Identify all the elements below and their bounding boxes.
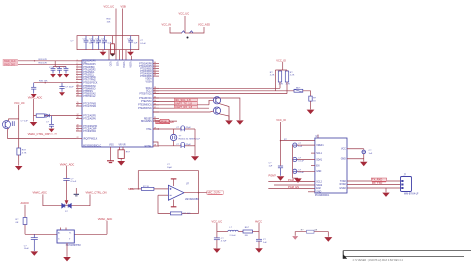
resistor R40 (278, 70, 281, 88)
svg-text:GND: GND (341, 159, 346, 161)
IC2 body (315, 138, 347, 193)
wire XTAL row2 right (185, 145, 196, 147)
svg-text:VCC: VCC (341, 149, 346, 151)
svg-text:22: 22 (77, 137, 79, 139)
svg-text:10uF: 10uF (24, 248, 30, 250)
svg-text:R34 47K: R34 47K (39, 63, 48, 65)
svg-text:1uF: 1uF (102, 43, 106, 45)
ground under rail (277, 176, 285, 181)
capacitor C45 (181, 142, 185, 148)
wire label row1 (153, 98, 240, 120)
capacitor C43 bars (12, 121, 14, 126)
wire tie center drop (185, 32, 189, 34)
wire VCC_IO rail (280, 122, 282, 166)
wire filter right rail lower (258, 241, 260, 248)
svg-text:VMAC_CTRL_ON: VMAC_CTRL_ON (28, 132, 49, 136)
net label underline (208, 194, 223, 196)
junction dot (187, 37, 189, 39)
svg-text:GND2: GND2 (339, 188, 346, 190)
net label underline (156, 123, 170, 125)
svg-text:22pF: 22pF (186, 127, 192, 129)
svg-text:VMAC_ADC: VMAC_ADC (98, 217, 113, 221)
op-amp U1 main MCU body (82, 60, 153, 147)
svg-text:PGM_TXD: PGM_TXD (288, 178, 301, 182)
resistor R32 jumper (190, 31, 194, 33)
svg-text:8: 8 (77, 78, 78, 80)
wire U4 gnd (66, 243, 68, 257)
wire feedback bottom (158, 193, 199, 214)
capacitor C55 (31, 234, 38, 251)
svg-text:VDDA: VDDA (122, 62, 125, 69)
wire filter left rail (216, 223, 218, 238)
U1 left pin stubs and names (76, 59, 98, 140)
svg-text:14: 14 (77, 95, 79, 97)
svg-text:1uF: 1uF (263, 242, 267, 244)
svg-text:0R: 0R (16, 222, 19, 224)
svg-text:C? 10uF: C? 10uF (65, 87, 74, 89)
transistor Q1 (3, 121, 11, 129)
wire caps common vertical (293, 145, 298, 178)
inductor L1 (228, 230, 238, 231)
svg-text:1uF: 1uF (369, 153, 373, 155)
op-amp power stub top (171, 179, 177, 186)
svg-text:0.1uF: 0.1uF (71, 181, 77, 183)
wire gnd tie (295, 232, 328, 237)
ground bar mid arm (74, 188, 79, 196)
wire VCC_UC left rail lower (18, 155, 20, 166)
wire PTE0 long (153, 93, 287, 95)
junction output (198, 192, 199, 193)
svg-text:VMAC_CTRL_ON: VMAC_CTRL_ON (86, 191, 107, 195)
svg-text:Y1: Y1 (69, 233, 71, 235)
svg-text:VSSA: VSSA (129, 62, 132, 69)
U1 bottom pin stubs (109, 145, 126, 154)
svg-text:PTE0/TXD1: PTE0/TXD1 (139, 93, 152, 95)
svg-text:PTC6/RXD2: PTC6/RXD2 (83, 131, 96, 133)
svg-text:10pF: 10pF (167, 167, 173, 169)
svg-text:EN2: EN2 (316, 188, 321, 190)
buffer U4 inner pins (58, 232, 71, 241)
wire ADC row (34, 115, 83, 117)
svg-text:VCC_UC: VCC_UC (14, 101, 25, 105)
svg-text:4.7K: 4.7K (279, 84, 284, 86)
svg-text:VCC_IO: VCC_IO (276, 58, 286, 62)
net label BT_RXD boxed (371, 178, 387, 181)
svg-text:PTE3/MISO1: PTE3/MISO1 (138, 105, 152, 107)
ground caps common (294, 178, 301, 183)
transistor Q2 (213, 97, 220, 104)
svg-text:PTB0/ADP0: PTB0/ADP0 (83, 60, 96, 63)
wire PGM_TXD (268, 181, 315, 183)
wire Q1 collector (9, 119, 19, 121)
title block top line (343, 250, 471, 252)
svg-text:PTB1/ADP1: PTB1/ADP1 (83, 63, 96, 66)
ground tie left (292, 236, 298, 240)
svg-text:21: 21 (77, 130, 79, 132)
wire VMAC_ADC right drop (106, 221, 108, 235)
svg-text:0.1uF: 0.1uF (298, 172, 304, 174)
svg-text:PTB2/SPSCK: PTB2/SPSCK (83, 83, 98, 85)
wire VSS down (110, 153, 112, 161)
wire crystal link (173, 129, 175, 134)
svg-text:MIC_OUT+: MIC_OUT+ (208, 191, 222, 195)
wire SCL long (153, 90, 294, 92)
ground under right bank (127, 50, 134, 56)
ground under Q3 (236, 120, 244, 124)
connector J1 (401, 177, 412, 192)
ground under C41 (59, 92, 65, 96)
svg-text:C? 1uF: C? 1uF (21, 121, 29, 123)
IC2 left pin names (316, 145, 324, 173)
capacitor C29 (102, 36, 107, 50)
wire VCC_UC left rail upper (18, 105, 20, 148)
svg-text:RX_TXD: RX_TXD (372, 181, 382, 185)
junction feedback top (138, 188, 139, 189)
wire bead to right rail (253, 231, 260, 233)
ground crystal (191, 156, 199, 161)
svg-text:VCC_UC: VCC_UC (179, 12, 190, 16)
resistor R36 on ADC row (36, 114, 44, 117)
svg-text:EXTAL: EXTAL (145, 145, 153, 148)
wire VSB vertical (122, 9, 124, 61)
svg-text:VCC_UC: VCC_UC (104, 5, 115, 9)
IC2 bottom-left pin names (316, 181, 323, 193)
capacitor C28 (96, 36, 101, 50)
wire op-amp input (130, 188, 168, 190)
svg-text:18: 18 (77, 117, 79, 119)
wire right arm (67, 194, 91, 205)
capacitor C46 on rail (278, 166, 283, 176)
svg-text:XTAL: XTAL (146, 128, 152, 131)
capacitor C37 (51, 67, 56, 74)
IC2 bottom pin stub (308, 191, 315, 193)
svg-text:10K: 10K (107, 21, 111, 23)
wire op-amp output (184, 192, 207, 194)
wire XTAL row1 right (185, 128, 196, 130)
svg-text:R? 10K: R? 10K (183, 213, 191, 215)
svg-text:AVCC: AVCC (255, 219, 262, 223)
net label OSC_CLK boxed (156, 120, 170, 123)
capacitor C27 (90, 36, 95, 50)
resistor R41 (285, 70, 288, 94)
resistor RV1 red box (118, 150, 124, 161)
capacitor C52 (214, 238, 220, 240)
net label I2C_SCL_1.8 (174, 98, 197, 102)
wire cap to diode junction (66, 180, 68, 200)
svg-text:AUDIO: AUDIO (21, 201, 29, 205)
svg-text:2.2uH: 2.2uH (230, 235, 236, 237)
svg-text:4.7K: 4.7K (22, 153, 27, 155)
capacitor C38 (57, 67, 62, 74)
svg-text:PTE4/MOSI1: PTE4/MOSI1 (138, 108, 152, 110)
net label underline (372, 181, 386, 183)
resistor R47 (307, 230, 315, 233)
wire filter horizontal (217, 231, 228, 233)
wire cap bank box (77, 36, 139, 50)
wire SDA long (153, 87, 280, 89)
ground under Q2 (225, 120, 233, 124)
title block left edge (342, 251, 344, 259)
svg-text:0.1uF: 0.1uF (140, 43, 146, 45)
svg-text:28: 28 (154, 145, 156, 147)
net label MIC_OUT+ boxed (207, 191, 224, 194)
svg-text:SCL1: SCL1 (316, 153, 322, 155)
wire XTAL row1 (153, 128, 181, 130)
wire PGM_RXD (274, 184, 315, 186)
net label BKGD small (160, 119, 169, 123)
svg-text:VSS: VSS (109, 145, 114, 147)
wire VMAC_ADC center drop (66, 166, 68, 178)
svg-text:MC9S08QE8CLC: MC9S08QE8CLC (83, 145, 101, 147)
capacitor C54 (63, 179, 69, 181)
svg-text:BKGD/MS: BKGD/MS (141, 121, 152, 123)
wire KBI row (34, 82, 82, 84)
svg-text:PTC3/ADP6: PTC3/ADP6 (83, 117, 96, 120)
svg-text:1uF: 1uF (269, 165, 273, 167)
wire R42 to gnd (310, 101, 312, 109)
ground under C39 (64, 74, 70, 78)
junction on KBI row (45, 82, 46, 83)
svg-text:0.1uF: 0.1uF (298, 160, 304, 162)
wire cap feed (53, 61, 66, 67)
svg-text:RXD2: RXD2 (340, 184, 347, 186)
ground under C40 (31, 94, 37, 98)
svg-text:PCA9306DC1: PCA9306DC1 (315, 194, 330, 197)
transistor Q3 (213, 107, 220, 114)
ground filter right (255, 248, 263, 252)
svg-text:GND: GND (316, 191, 321, 193)
capacitor C26 (84, 36, 89, 50)
ground under U4 (63, 257, 71, 261)
svg-text:UART_TX_1.8: UART_TX_1.8 (175, 102, 192, 106)
wire VCC_A3D arm (189, 27, 204, 33)
capacitor C53 (256, 239, 262, 241)
svg-text:SDA1: SDA1 (316, 158, 323, 161)
svg-text:VCC_IN: VCC_IN (162, 23, 172, 27)
svg-text:PTC2/ADP5: PTC2/ADP5 (83, 114, 96, 117)
diode D2 on ADC row (46, 114, 50, 117)
capacitor C34 (128, 36, 133, 50)
wire crystal link2 (173, 141, 175, 146)
svg-text:VMAC_ADC: VMAC_ADC (28, 95, 43, 99)
wire op-amp minus input (158, 194, 168, 196)
wire VCC_UC tie vertical (184, 16, 186, 33)
ground under C42 (49, 129, 55, 133)
title block corner mark (343, 254, 347, 259)
svg-text:VSSA: VSSA (146, 81, 153, 84)
ground under C38 (57, 74, 63, 78)
wire label row3 (153, 104, 209, 106)
svg-text:4.7V ZENER : (1N4678 x2) MAX: 4.7V ZENER : (1N4678 x2) MAX 0.5W REV 0.… (353, 259, 404, 262)
wire BKGD stub row (153, 120, 177, 122)
wire Q2 emitter to gnd (219, 103, 229, 120)
svg-text:VSS: VSS (116, 62, 118, 67)
wire filter left rail lower (216, 240, 218, 249)
svg-text:VR VR: VR VR (119, 145, 126, 147)
inductor FB1 red box (111, 36, 115, 54)
diode D3 pair (62, 204, 71, 208)
svg-text:R4002 32.768KHZ-LF: R4002 32.768KHZ-LF (179, 139, 201, 141)
wire BT_RXD (347, 180, 401, 182)
title block second line (343, 255, 464, 257)
ground under left rail (15, 166, 23, 170)
svg-text:VDD: VDD (109, 62, 111, 67)
ground under C55 (31, 251, 39, 255)
svg-text:SWD_DIO: SWD_DIO (4, 63, 15, 66)
svg-text:WM-BT-04-LF: WM-BT-04-LF (404, 193, 419, 195)
wire VCC_IO stub (275, 62, 287, 70)
wire feedback top (138, 171, 198, 193)
wire VMAC_ADC drop (33, 99, 35, 122)
svg-text:PTE1/RXD1: PTE1/RXD1 (139, 98, 152, 100)
net label UART_TX_1.8 (174, 102, 197, 106)
ground under left bank (100, 50, 107, 56)
U1 power pin stubs (109, 50, 132, 60)
svg-text:VREF1: VREF1 (316, 145, 324, 147)
svg-text:39: 39 (154, 75, 156, 77)
wire BT_TXD (347, 184, 401, 186)
svg-text:PTC1/TPM4: PTC1/TPM4 (83, 106, 96, 108)
capacitor C50 (362, 149, 366, 162)
capacitor C44 (181, 126, 185, 131)
svg-text:R? 1K: R? 1K (143, 186, 150, 188)
svg-text:PTB7/SCL2: PTB7/SCL2 (83, 96, 96, 98)
wire AUDIO drop upper (24, 205, 26, 218)
svg-text:2.2K: 2.2K (290, 75, 295, 77)
IC2 left pin stubs (311, 153, 315, 166)
svg-text:IRQ/TPMCLK: IRQ/TPMCLK (83, 138, 98, 140)
ground tie right (324, 237, 332, 242)
svg-text:TXD2: TXD2 (340, 181, 347, 183)
ground bar under VSS (107, 161, 114, 163)
svg-text:1uF: 1uF (134, 43, 138, 45)
ferrite bead BD2 (243, 230, 253, 233)
svg-text:VCC_UC: VCC_UC (212, 219, 223, 223)
svg-text:VMAC_ADC: VMAC_ADC (60, 162, 75, 166)
svg-text:16: 16 (77, 105, 79, 107)
wire Q2 base (209, 100, 213, 105)
wire gnd drop from BT_GND (385, 188, 387, 192)
wire AUDIO drop lower (24, 225, 26, 235)
wire audio row (25, 233, 57, 235)
buffer U4 body (57, 228, 74, 244)
capacitor C42 (49, 116, 54, 129)
arrow into junction (65, 200, 69, 204)
junction on SWD_CLK (34, 60, 35, 61)
wire pullup left vertical (274, 70, 276, 91)
U1 right pin stubs and names (138, 62, 159, 148)
capacitor C48 (293, 157, 315, 161)
svg-text:MCU_ON: MCU_ON (48, 134, 58, 136)
svg-text:1uF: 1uF (298, 146, 302, 148)
wire VCC_IN arm (170, 27, 182, 33)
svg-text:2.2K: 2.2K (270, 75, 275, 77)
wire label row2 (153, 100, 197, 102)
svg-text:4.7uF: 4.7uF (221, 241, 227, 243)
resistor R46 (23, 218, 27, 225)
wire PGM_EN (268, 187, 315, 189)
svg-text:VCC_IO: VCC_IO (276, 118, 286, 122)
svg-text:NC7WZ07P6X: NC7WZ07P6X (66, 245, 82, 247)
FB1 bottom junction marks (110, 54, 116, 57)
wire Q1 emitter to row (8, 128, 76, 138)
net label UART_RX_1.8 (174, 105, 197, 109)
net label SWD backing box (3, 59, 18, 65)
ground under VMAC_ADC drop (30, 122, 38, 126)
capacitor C40 at wire end (31, 83, 36, 94)
svg-text:VDDA: VDDA (145, 78, 152, 81)
svg-text:PTE2/SS1: PTE2/SS1 (141, 101, 152, 103)
IC2 right pin names (341, 149, 346, 161)
svg-text:R35 10K: R35 10K (39, 80, 48, 82)
svg-text:GND: GND (316, 171, 321, 173)
ground under BT_GND (382, 193, 389, 197)
svg-text:LMV321IDBV: LMV321IDBV (185, 199, 199, 201)
ferrite bead BD1 (294, 89, 303, 92)
IC2 bottom-right pin names (339, 181, 346, 190)
svg-text:EN: EN (316, 165, 320, 167)
svg-text:PGM_EN: PGM_EN (288, 185, 299, 189)
wire inductor to bead (238, 231, 243, 233)
svg-text:VSB: VSB (121, 5, 126, 9)
resistor R42 (309, 96, 312, 101)
op-amp U3 triangle (168, 185, 184, 200)
resistor R44 on input (141, 187, 154, 190)
svg-text:SCL1: SCL1 (146, 91, 152, 93)
wire label row4 (153, 107, 209, 109)
wire rail to IC2 top (281, 140, 315, 142)
svg-text:SCL2: SCL2 (316, 181, 322, 183)
svg-text:VCC_A3D: VCC_A3D (198, 23, 210, 27)
resistor R37 4.7K (17, 148, 21, 155)
U1 top pin names inside (109, 62, 132, 69)
wire left arm (43, 194, 67, 205)
op-amp input polarity marks (170, 188, 172, 195)
svg-text:22pF: 22pF (186, 144, 192, 146)
op-amp power stub bottom (171, 200, 177, 207)
svg-text:VMAC_ADC: VMAC_ADC (33, 191, 48, 195)
wire SWD_CLK (18, 60, 82, 62)
capacitor C49 (293, 169, 315, 173)
resistor R45 on feedback (170, 212, 181, 215)
wire audio row right (74, 233, 107, 235)
wire VCC_UC vertical (115, 9, 117, 61)
svg-text:PTA7/TPM2: PTA7/TPM2 (83, 78, 96, 81)
wire Q3 emitter to gnd (219, 114, 229, 120)
wire filter right rail (258, 223, 260, 239)
svg-text:R33 47K: R33 47K (39, 59, 48, 61)
svg-text:4.7K: 4.7K (286, 84, 291, 86)
capacitor C47 (293, 143, 315, 147)
ground under C50 (360, 162, 368, 167)
svg-text:A1: A1 (58, 232, 60, 235)
svg-text:BKGD: BKGD (161, 121, 168, 123)
crystal Y1 (170, 134, 176, 140)
capacitor C41 (59, 83, 64, 92)
wire IC2 GND right (347, 158, 364, 160)
wire crystal gnd vertical (194, 129, 196, 156)
resistor R31 jumper (182, 31, 186, 33)
wire bead to resistor (303, 91, 311, 96)
ground under R42 (307, 110, 315, 115)
wire BT_GND (347, 187, 401, 189)
ground under RV1 (117, 161, 125, 166)
wire XTAL row2 (153, 142, 181, 146)
svg-text:I2C_SCL_1.8: I2C_SCL_1.8 (175, 98, 191, 102)
ground under C37 (50, 74, 56, 78)
capacitor C39 (64, 67, 69, 74)
ground filter left (213, 249, 221, 253)
